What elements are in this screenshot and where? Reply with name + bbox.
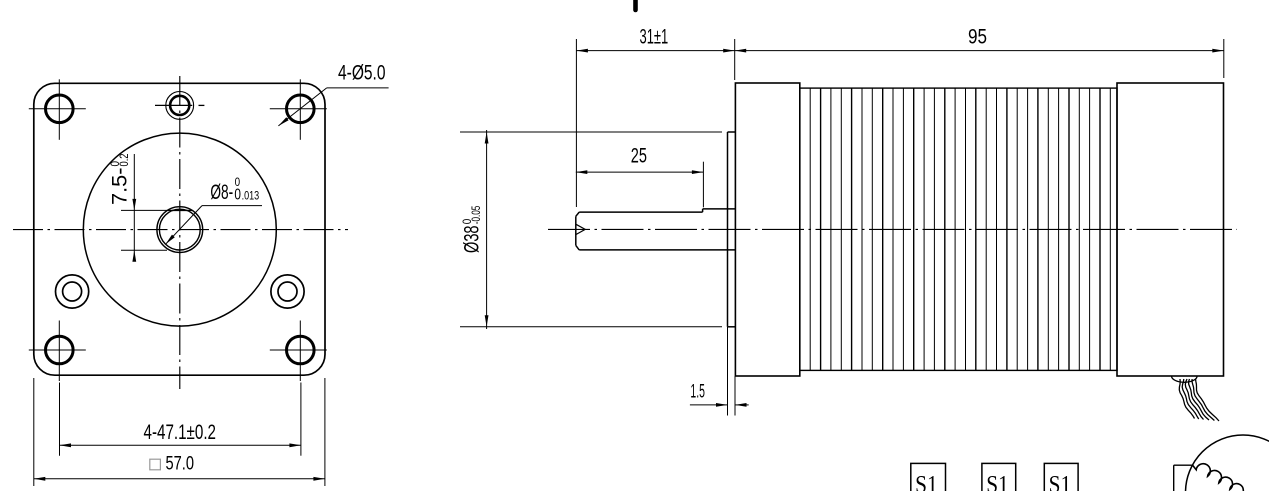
svg-text:.013: .013 — [242, 188, 260, 202]
dimension text □ 57.0 — [150, 454, 194, 475]
svg-text:4-47.1±0.2: 4-47.1±0.2 — [144, 421, 217, 444]
svg-text:0: 0 — [234, 186, 241, 203]
motor mounting plate outline (square flange 57.0) — [34, 83, 325, 375]
svg-text:S1: S1 — [986, 472, 1009, 491]
svg-text:-0.05: -0.05 — [469, 205, 483, 224]
svg-text:4-Ø5.0: 4-Ø5.0 — [338, 62, 386, 85]
switch box S1 #3 — [1044, 463, 1078, 491]
dimension text 1.5 — [690, 381, 705, 402]
svg-text:95: 95 — [968, 25, 987, 48]
wire exit grommet bump — [1172, 376, 1198, 382]
dimension 4-47.1±0.2 lines and arrows — [60, 383, 301, 456]
cropped mark at top — [633, 0, 638, 10]
dimension chain 31±1 / 95 lines and arrows — [576, 39, 1223, 207]
front end cap — [735, 83, 799, 376]
pilot boss Ø38 side profile — [728, 132, 736, 327]
pilot boss circle Ø38.1 — [83, 133, 276, 326]
leader line for 4-Ø5.0 — [278, 88, 388, 126]
right screw hole (double circle) — [271, 275, 304, 308]
svg-text:57.0: 57.0 — [166, 454, 195, 475]
switch box S1 #1 — [911, 463, 946, 491]
svg-text:Ø38: Ø38 — [461, 226, 484, 254]
svg-text:31±1: 31±1 — [640, 25, 669, 48]
svg-text:Ø8-: Ø8- — [210, 181, 233, 204]
dimension text 25 — [631, 144, 647, 167]
mounting hole bottom-right Ø5.0 with crosshair — [270, 321, 327, 382]
motor shaft side view with center drill — [576, 209, 736, 250]
switch box S1 #2 — [982, 463, 1016, 491]
wiring diagram terminal box (partial) — [1174, 465, 1193, 491]
dimension text 4-Ø5.0 — [338, 62, 386, 85]
shaft circle Ø8 with flat — [157, 207, 203, 253]
mounting hole bottom-left Ø5.0 with crosshair — [29, 321, 86, 382]
dimension text Ø8-0.013 — [210, 175, 259, 204]
dimension 57.0 lines and arrows — [34, 378, 325, 486]
dimension 7.5-0.2 lines and arrows — [121, 154, 167, 262]
leader line for Ø8 — [166, 206, 263, 245]
dimension Ø38 lines and arrows — [460, 130, 722, 329]
vertical centerline of front view — [179, 76, 181, 389]
svg-text:25: 25 — [631, 144, 647, 167]
stator lamination stack outline — [800, 88, 1117, 370]
dimension text 31±1 — [640, 25, 669, 48]
lead wires — [1179, 379, 1219, 421]
side view horizontal centerline — [548, 228, 1237, 230]
dimension text 4-47.1±0.2 — [144, 421, 217, 444]
svg-text:S1: S1 — [915, 472, 938, 491]
svg-text:1.5: 1.5 — [690, 381, 705, 402]
dimension 25 lines and arrows — [576, 162, 704, 208]
mounting hole top-right Ø5.0 with crosshair — [270, 79, 327, 140]
motor circle (wiring diagram, partial) — [1186, 435, 1269, 491]
dimension text 95 — [968, 25, 987, 48]
left screw hole (double circle) — [56, 275, 89, 308]
top-center pilot hole (double circle) with crosshair — [155, 92, 204, 120]
dimension text 7.5-0.2 (rotated) — [108, 153, 132, 205]
stator lamination lines — [810, 88, 1110, 370]
svg-text:S1: S1 — [1049, 472, 1072, 491]
rear end cap — [1117, 83, 1224, 376]
dimension text Ø38-0.05 (rotated) — [460, 205, 484, 253]
winding coil symbol — [1193, 464, 1244, 491]
horizontal centerline of front view — [13, 229, 348, 231]
mounting hole top-left Ø5.0 with crosshair — [29, 79, 86, 140]
dimension 1.5 lines and arrows — [690, 327, 749, 416]
svg-text:7.5-: 7.5- — [109, 167, 132, 205]
svg-text:0.2: 0.2 — [117, 153, 131, 166]
